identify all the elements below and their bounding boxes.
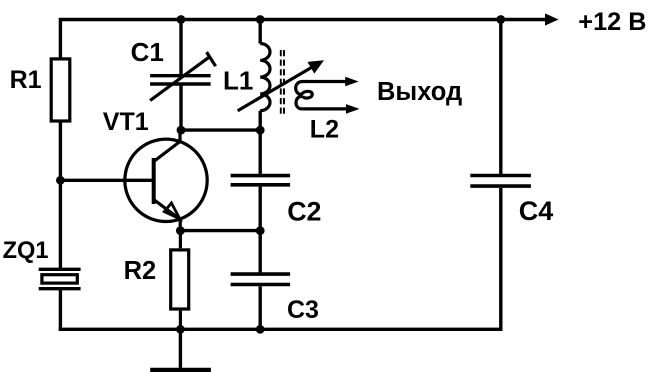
svg-text:Выход: Выход xyxy=(377,78,462,106)
capacitor C2 xyxy=(231,176,322,227)
capacitor C1 (trimmer) xyxy=(150,52,216,100)
+12V supply arrow xyxy=(545,13,559,25)
svg-text:L1: L1 xyxy=(223,66,253,96)
svg-text:C4: C4 xyxy=(519,196,554,226)
svg-text:L2: L2 xyxy=(310,116,339,144)
transistor VT1 xyxy=(103,108,207,231)
node top-C1 xyxy=(177,15,186,24)
wire C1 top lead xyxy=(179,20,182,75)
svg-text:R2: R2 xyxy=(124,257,157,285)
node collector-C1 xyxy=(177,126,186,135)
wire C1 bottom lead xyxy=(179,85,182,130)
wire base lead xyxy=(60,179,152,182)
node base xyxy=(56,176,65,185)
wire C2 top lead xyxy=(259,130,262,174)
resistor R2 xyxy=(124,231,189,330)
svg-text:ZQ1: ZQ1 xyxy=(3,238,49,264)
wire L1 bottom lead xyxy=(259,111,262,130)
capacitor C3 xyxy=(231,274,319,324)
wire L1 top lead xyxy=(259,20,262,44)
node emitter xyxy=(176,226,185,235)
tuning arrow across L1 xyxy=(238,60,324,110)
inductor L1 xyxy=(223,44,270,111)
wire left vertical middle xyxy=(59,122,62,268)
wire top rail +12V xyxy=(59,18,546,21)
svg-text:C1: C1 xyxy=(131,37,164,67)
wire C4 top lead xyxy=(499,20,502,175)
capacitor C4 xyxy=(470,176,553,226)
svg-text:+12 В: +12 В xyxy=(578,8,646,36)
svg-text:R1: R1 xyxy=(10,66,42,94)
wire bottom rail xyxy=(59,188,501,329)
ground xyxy=(150,329,211,370)
svg-text:VT1: VT1 xyxy=(103,108,149,136)
core (dashed line between L1 and L2) xyxy=(281,50,284,116)
inductor L2 xyxy=(296,82,347,144)
output arrow top xyxy=(345,77,359,87)
node ground-C3 xyxy=(256,325,265,334)
wire C3 top lead xyxy=(259,231,262,273)
wire C3 bottom lead xyxy=(259,286,262,329)
wire collector row xyxy=(181,128,260,131)
node top-L1 xyxy=(256,15,265,24)
wire C2 bottom lead xyxy=(259,187,262,231)
node collector-L1 xyxy=(256,126,265,135)
node emitter-C2 xyxy=(256,226,265,235)
svg-text:C3: C3 xyxy=(287,296,319,324)
wire emitter row xyxy=(180,229,260,232)
wire left vertical bottom xyxy=(59,290,62,331)
crystal ZQ1 xyxy=(3,238,81,289)
svg-text:C2: C2 xyxy=(287,197,321,227)
node top-C4 xyxy=(496,15,505,24)
node ground-R2 xyxy=(176,325,185,334)
resistor R1 xyxy=(10,59,70,121)
output arrow bottom xyxy=(346,104,360,114)
wire left vertical top xyxy=(59,18,62,58)
